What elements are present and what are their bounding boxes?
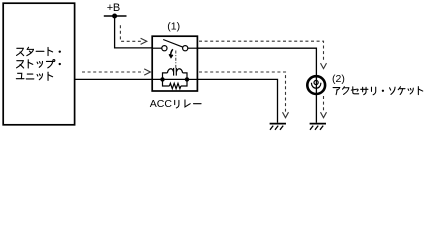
junction: coil left node bbox=[160, 77, 164, 81]
relay switch actuation arrow (curved, pointing down) bbox=[169, 49, 173, 57]
label: スタート・ストップ・ユニット bbox=[16, 47, 61, 80]
wire: switch row inside relay bbox=[152, 47, 162, 49]
relay coil L1 (top branch) bbox=[163, 68, 188, 78]
flow arrow: socket to ground (dashed) bbox=[321, 96, 327, 118]
junction: +B node dot bbox=[112, 14, 117, 19]
relay switch contact left bbox=[162, 46, 167, 51]
svg-text:ACC: ACC bbox=[150, 98, 173, 110]
svg-text:+B: +B bbox=[107, 2, 120, 14]
ground: coil ground bbox=[270, 124, 286, 130]
junction: coil right node bbox=[185, 77, 189, 81]
wire: +B down and right to relay switch input bbox=[115, 16, 153, 48]
relay switch arm bbox=[163, 40, 183, 48]
relay linkage (dash-dot) bbox=[175, 51, 177, 69]
relay switch contact right bbox=[183, 46, 188, 51]
flow arrow: +B current into relay (dashed) bbox=[120, 25, 146, 44]
ground: socket ground bbox=[310, 124, 326, 130]
wire: relay coil return to ground bbox=[197, 79, 277, 122]
label: アクセサリ・ソケット bbox=[333, 87, 423, 95]
power: +B supply bar bbox=[104, 15, 127, 17]
unit box: start-stop unit bbox=[3, 3, 74, 125]
relay K1 box: ACC relay bbox=[152, 36, 197, 91]
resistor R1 (bottom branch, parallel with coil) bbox=[163, 81, 188, 88]
flow arrow: coil return to ground (dashed) bbox=[199, 72, 289, 118]
flow arrow: unit signal into relay coil (dashed) bbox=[82, 69, 150, 75]
wire: coil row inside relay bbox=[161, 78, 190, 80]
svg-text:(1): (1) bbox=[167, 20, 180, 32]
svg-text:(2): (2) bbox=[332, 73, 345, 85]
wire: unit output to relay coil bbox=[75, 78, 161, 80]
label: ACCリレー bbox=[150, 98, 201, 110]
wire: relay switch output to socket and ground bbox=[197, 48, 316, 123]
socket J1: accessory socket symbol bbox=[307, 76, 325, 94]
flow arrow: relay output toward socket (dashed) bbox=[199, 41, 327, 68]
